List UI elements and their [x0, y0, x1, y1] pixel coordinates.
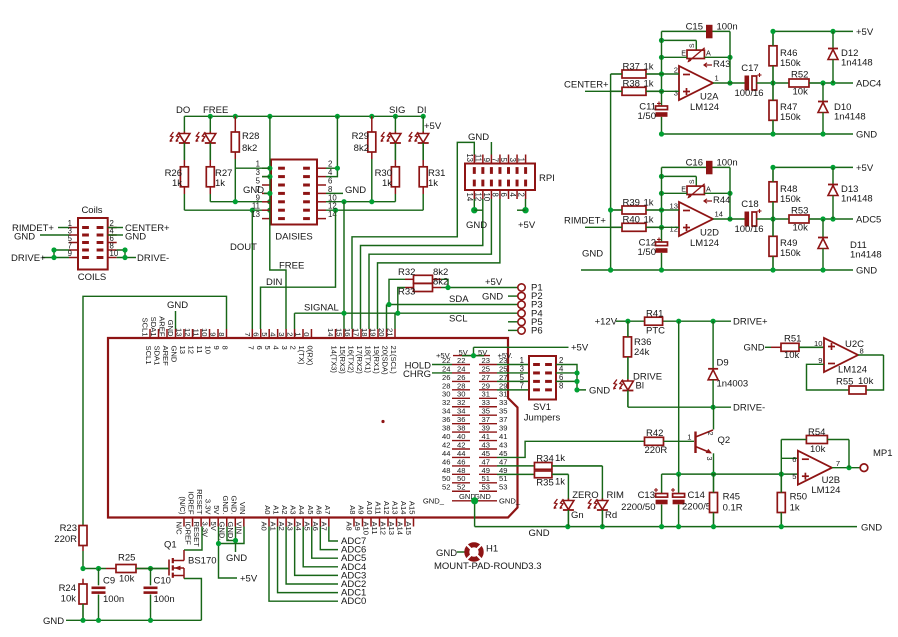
svg-text:14(TX3): 14(TX3)	[330, 346, 339, 374]
node +5V label at P1	[485, 277, 503, 288]
svg-text:A4: A4	[297, 505, 306, 514]
wire right vertical to output	[727, 167, 732, 221]
capacitor C14	[671, 474, 716, 526]
wire CHRG to pin24	[432, 372, 452, 374]
resistor R55	[836, 376, 874, 394]
wire DRIVE- bracket	[117, 247, 136, 260]
svg-text:A15: A15	[404, 522, 413, 536]
junction dots rail A left	[233, 199, 273, 204]
svg-text:7: 7	[243, 332, 252, 336]
wire trimmer S feed	[659, 38, 696, 50]
wire output to cap	[713, 82, 745, 84]
connector RPI	[465, 153, 535, 202]
wire ADC out	[820, 80, 853, 85]
svg-text:16(TX2): 16(TX2)	[347, 346, 356, 374]
svg-text:C10: C10	[154, 576, 171, 587]
wire FREE net (multi-dot vertical down to MCU pin3)	[270, 210, 286, 329]
wire pin49 to R35	[497, 473, 535, 475]
wire VIN pin join	[216, 527, 244, 547]
node ADC4 label	[856, 79, 881, 90]
node +12V label	[595, 317, 628, 328]
svg-text:9: 9	[209, 332, 218, 336]
svg-text:1: 1	[715, 74, 719, 83]
node GND label above MCU	[167, 300, 188, 311]
svg-text:LM124: LM124	[811, 485, 840, 496]
svg-text:2: 2	[285, 332, 294, 336]
capacitor C10	[144, 569, 175, 621]
svg-text:SIG: SIG	[389, 105, 405, 116]
svg-text:11: 11	[195, 346, 204, 354]
resistor R30	[375, 160, 400, 194]
svg-text:24k: 24k	[634, 347, 650, 358]
node FREE label mid	[279, 261, 304, 272]
svg-text:C14: C14	[688, 490, 705, 501]
wires ADC0-ADC7 from A0-A7	[269, 527, 366, 608]
svg-text:A8: A8	[345, 522, 354, 531]
svg-text:10k: 10k	[793, 223, 809, 234]
wire DOUT vertical (rail B to MCU pin7)	[251, 210, 253, 329]
svg-text:IOREF: IOREF	[187, 491, 196, 515]
resistor R33	[398, 277, 448, 298]
wire Q2 emitter to sense node	[711, 453, 716, 476]
power GND label bottom-left	[43, 616, 64, 627]
LED ZERO	[554, 490, 599, 526]
capacitor C9	[92, 569, 125, 621]
svg-text:A1: A1	[272, 505, 281, 514]
svg-text:150k: 150k	[780, 112, 801, 123]
wire left feedback vertical	[659, 31, 664, 94]
wire DIN net (rail B down, left, down to MCU pin6)	[261, 210, 336, 329]
svg-text:GND: GND	[466, 220, 487, 231]
svg-text:10k: 10k	[793, 87, 809, 98]
svg-text:5: 5	[792, 472, 796, 481]
svg-text:A12: A12	[379, 522, 388, 536]
svg-text:U2D: U2D	[700, 228, 719, 239]
wire RPI pin10 route to MCU pin18	[369, 199, 491, 329]
svg-text:S: S	[689, 179, 696, 184]
svg-text:R35: R35	[536, 478, 553, 489]
svg-text:GND: GND	[167, 300, 188, 311]
svg-text:R45: R45	[723, 492, 740, 503]
svg-text:R50: R50	[790, 492, 807, 503]
wire U2B output	[832, 440, 860, 471]
svg-text:A3: A3	[289, 505, 298, 514]
svg-text:DAISIES: DAISIES	[275, 232, 313, 243]
label SV1	[533, 402, 551, 413]
wire R33 right to +5V node	[441, 287, 448, 289]
svg-text:C18: C18	[741, 199, 758, 210]
label MOUNT-PAD-ROUND3.3	[434, 561, 542, 572]
svg-text:+5V: +5V	[856, 163, 874, 174]
svg-text:E: E	[681, 185, 686, 194]
LED DRIVE	[613, 372, 662, 408]
svg-text:10k: 10k	[784, 350, 800, 361]
svg-text:8: 8	[491, 193, 500, 197]
capacitor C18	[734, 199, 763, 235]
svg-text:SCL1: SCL1	[141, 318, 150, 337]
svg-text:5: 5	[263, 346, 272, 350]
IC U1 bottom pins with numbers	[175, 489, 417, 547]
svg-text:GND: GND	[744, 343, 765, 354]
wire main GND rail	[475, 524, 857, 529]
svg-text:Gn: Gn	[571, 510, 584, 521]
svg-text:R52: R52	[791, 70, 808, 81]
svg-text:GND: GND	[582, 249, 603, 260]
svg-text:1n4148: 1n4148	[834, 112, 866, 123]
svg-text:13: 13	[175, 328, 184, 336]
svg-text:9: 9	[212, 346, 221, 350]
wire rail B right (DAISIES pin12 net)	[326, 209, 423, 211]
transistor Q2	[687, 430, 730, 461]
node +5V label right of MCU	[571, 343, 589, 354]
node CHRG label	[403, 369, 431, 380]
svg-text:LM124: LM124	[690, 238, 719, 249]
svg-text:+5V: +5V	[518, 220, 536, 231]
wire bottom-left GND rail	[66, 618, 201, 623]
node DRIVE- label	[137, 253, 169, 264]
wire MCU pin20 stub to SDA	[386, 305, 388, 330]
svg-text:R42: R42	[646, 428, 663, 439]
svg-text:VIN: VIN	[238, 502, 247, 515]
wire rail A left (DAISIES pin9 net)	[210, 201, 262, 203]
wire ADC out	[820, 216, 853, 221]
svg-text:DRIVE+: DRIVE+	[733, 317, 768, 328]
svg-text:+5V: +5V	[571, 343, 589, 354]
svg-text:DO: DO	[176, 105, 190, 116]
mount pad H1	[436, 544, 498, 560]
svg-text:2: 2	[289, 346, 298, 350]
svg-text:10k: 10k	[119, 574, 135, 585]
svg-text:0: 0	[302, 332, 311, 336]
junction dots rail B left	[250, 208, 273, 213]
wire RPI pin12 route to MCU pin17	[361, 199, 483, 329]
wire DRIVE- line	[628, 405, 731, 410]
wire node row left	[80, 566, 106, 571]
resistor R24	[59, 579, 87, 621]
IC U1 top pins with numbers	[141, 316, 398, 375]
svg-text:100n: 100n	[717, 158, 738, 169]
LED SIG	[381, 116, 401, 160]
svg-text:R43: R43	[713, 59, 730, 70]
node CENTER+ label	[564, 80, 611, 92]
svg-text:A9: A9	[353, 522, 362, 531]
LED FREE	[195, 116, 215, 160]
svg-text:C9: C9	[103, 576, 115, 587]
node CENTER+ label	[108, 223, 170, 234]
svg-text:1k: 1k	[382, 178, 392, 189]
svg-text:8: 8	[559, 381, 563, 390]
resistor R54	[781, 427, 849, 455]
wire GND rail U2A	[659, 131, 853, 136]
svg-text:GND.: GND.	[221, 496, 230, 515]
svg-text:100n: 100n	[103, 594, 124, 605]
wire MCU 5V pin to +5V label	[219, 527, 238, 579]
wire node row right dot	[136, 566, 169, 571]
svg-text:19: 19	[369, 328, 378, 336]
resistor R51	[771, 334, 824, 362]
op-amp U2A	[674, 66, 719, 114]
svg-text:E: E	[681, 49, 686, 58]
wire sense line	[662, 472, 798, 477]
IC U1 right header pins 22-53	[423, 348, 521, 505]
svg-text:Rd: Rd	[605, 510, 617, 521]
svg-text:8k2: 8k2	[354, 143, 369, 154]
node +5V label below Q1	[240, 574, 258, 585]
svg-text:8k2: 8k2	[242, 143, 257, 154]
svg-text:150k: 150k	[780, 58, 801, 69]
resistor R49	[769, 219, 801, 270]
capacitor C17	[734, 63, 763, 99]
resistor R47	[769, 83, 801, 134]
svg-text:A9: A9	[357, 505, 366, 514]
svg-text:CHRG: CHRG	[403, 369, 431, 380]
power GND label right U2D	[856, 266, 877, 277]
diode D10	[818, 83, 866, 134]
svg-text:53: 53	[499, 483, 507, 492]
node HOLD label	[405, 361, 432, 372]
svg-text:R54: R54	[808, 427, 825, 438]
diode D12	[828, 31, 873, 83]
svg-text:A13: A13	[387, 522, 396, 536]
svg-text:Bl: Bl	[636, 381, 644, 392]
wire SIGNAL long vertical (rail A to MCU pin15)	[343, 202, 345, 338]
svg-text:ADC5: ADC5	[856, 215, 881, 226]
svg-text:(N/C): (N/C)	[178, 496, 187, 515]
svg-text:GND: GND	[14, 232, 35, 243]
label Jumpers	[524, 413, 561, 424]
svg-text:10k: 10k	[810, 444, 826, 455]
wire rail A right (DAISIES pin10 net)	[326, 201, 395, 203]
diode D11	[818, 219, 882, 270]
svg-text:6: 6	[251, 332, 260, 336]
wire R23 rail to MCU pin8	[83, 296, 227, 525]
wire +5V rail right	[770, 165, 853, 170]
wire R31 bottom to rail B right	[422, 194, 424, 210]
wire R35 to ZERO LED	[567, 474, 569, 499]
svg-text:BS170: BS170	[188, 556, 217, 567]
node GND label left of DAISIES pin7	[243, 185, 270, 196]
wire RPI pin2 to +5V	[517, 199, 529, 213]
svg-text:CENTER+: CENTER+	[564, 80, 609, 91]
svg-text:DIN: DIN	[266, 277, 283, 288]
svg-text:8: 8	[217, 332, 226, 336]
junction dot rail B right	[333, 208, 338, 213]
resistor R31	[419, 160, 445, 194]
connector SV1	[520, 356, 564, 400]
svg-text:3: 3	[280, 346, 289, 350]
svg-text:R39: R39	[623, 198, 640, 209]
svg-text:1(TX): 1(TX)	[297, 346, 306, 365]
svg-text:+5V: +5V	[424, 121, 442, 132]
node +5V label at DI	[424, 121, 442, 132]
wire +5V vertical right of DAISIES to pins 2,4	[326, 116, 340, 176]
svg-text:+5V: +5V	[856, 27, 874, 38]
svg-text:150k: 150k	[780, 194, 801, 205]
wire SDA line	[386, 302, 517, 307]
label COILS	[78, 272, 107, 283]
svg-text:RIMDET+: RIMDET+	[564, 216, 606, 227]
wire left vertical CENTER/RIMDET gain net	[608, 74, 613, 273]
svg-text:R32: R32	[398, 267, 415, 278]
node GND label below MCU	[226, 553, 247, 564]
svg-text:AREF: AREF	[158, 316, 167, 337]
transistor Q1	[164, 540, 217, 579]
wire pin23 to SV1 pin1	[497, 364, 529, 366]
resistor R48	[769, 167, 801, 219]
wire R29 bottom to rail A	[371, 159, 373, 202]
wire RPI pin13 route to MCU pin16	[352, 142, 474, 329]
svg-text:13: 13	[670, 202, 678, 211]
node DOUT label	[230, 242, 257, 253]
svg-text:A11: A11	[374, 502, 383, 515]
resistor R40	[611, 215, 662, 232]
wire cap to ADC node	[757, 80, 789, 85]
wire feedback top rail U2D	[662, 166, 731, 168]
svg-text:18(TX1): 18(TX1)	[364, 346, 373, 374]
wire Q1 source to GND rail	[184, 579, 201, 621]
LED RIM	[588, 490, 625, 526]
svg-text:A14: A14	[399, 501, 408, 515]
svg-text:20(SDA): 20(SDA)	[381, 346, 390, 376]
wire R28 bottom to rail A and DAISIES pin 1	[235, 159, 262, 202]
trimmer R43	[681, 43, 730, 70]
svg-text:100/16: 100/16	[734, 88, 763, 99]
svg-text:2: 2	[706, 432, 715, 436]
wire pin47 to R34	[497, 465, 535, 467]
svg-text:1k: 1k	[644, 198, 654, 209]
node SCL label	[449, 314, 467, 325]
wire +5V rail of LED/DAISIES section	[184, 115, 423, 117]
svg-text:12: 12	[187, 346, 196, 354]
pad MP1	[860, 448, 892, 472]
svg-text:1k: 1k	[428, 178, 438, 189]
wire HOLD to pin22	[432, 364, 452, 366]
svg-text:ADC4: ADC4	[856, 79, 881, 90]
wire +5V vertical left of DAISIES to pins 1,3	[262, 116, 273, 210]
capacitor C12	[638, 227, 668, 270]
svg-text:53: 53	[482, 483, 490, 492]
svg-text:7: 7	[520, 381, 524, 390]
wire DRIVE+ bracket	[42, 247, 69, 260]
wire trimmer A to right vertical	[704, 55, 732, 60]
op-amp U2C	[814, 338, 867, 376]
resistor R23	[54, 523, 87, 551]
resistor R26	[165, 160, 189, 194]
svg-text:DRIVE-: DRIVE-	[137, 253, 169, 264]
svg-text:R24: R24	[59, 583, 76, 594]
svg-text:220R: 220R	[645, 445, 668, 456]
svg-text:GND_: GND_	[499, 496, 521, 505]
svg-text:13: 13	[465, 153, 474, 162]
node GND label above RPI	[468, 132, 489, 143]
wire R34 to RIM LED	[601, 466, 603, 500]
svg-text:1k: 1k	[172, 178, 182, 189]
wire DRIVE+ to C13/C14 line	[678, 321, 680, 474]
svg-text:A: A	[706, 185, 711, 194]
svg-text:P6: P6	[531, 326, 543, 337]
svg-text:IOREF: IOREF	[183, 522, 192, 546]
svg-text:FREE: FREE	[203, 105, 228, 116]
svg-text:GND.: GND.	[229, 496, 238, 515]
node ADC5 label	[856, 215, 881, 226]
wire DRIVE+ line	[625, 319, 731, 324]
svg-text:+5V: +5V	[240, 574, 258, 585]
svg-text:R38: R38	[623, 79, 640, 90]
node FREE label	[203, 105, 228, 116]
svg-text:100n: 100n	[154, 594, 175, 605]
svg-text:5: 5	[499, 158, 508, 163]
node RIMDET+ label	[564, 216, 611, 228]
svg-text:ADC7: ADC7	[341, 536, 366, 547]
wire R30 bottom to rail A right	[394, 194, 396, 202]
svg-text:A8: A8	[348, 505, 357, 514]
op-amp U2D	[670, 202, 723, 250]
svg-text:8: 8	[221, 346, 230, 350]
wire MCU pin21 stub to SCL	[394, 313, 396, 329]
svg-text:1k: 1k	[215, 178, 225, 189]
label Coils	[81, 205, 102, 216]
svg-text:R37: R37	[623, 62, 640, 73]
capacitor C15	[686, 22, 738, 39]
node DI label	[417, 105, 427, 116]
svg-text:GND: GND	[861, 523, 882, 534]
wire pin45 to R42 line	[497, 441, 645, 457]
svg-text:GND: GND	[170, 346, 179, 363]
svg-text:R55: R55	[836, 377, 853, 388]
wire output to cap	[713, 218, 745, 220]
svg-text:1/50: 1/50	[638, 111, 657, 122]
svg-text:AREF: AREF	[161, 346, 170, 367]
wire RPI pin14 to GND	[471, 199, 483, 213]
resistor R35	[534, 471, 568, 489]
wire GND rail U2D	[581, 267, 853, 272]
node GND label right of SV1	[589, 386, 610, 397]
label DAISIES	[275, 232, 313, 243]
svg-text:A12: A12	[382, 501, 391, 515]
svg-text:R41: R41	[646, 309, 663, 320]
svg-text:Q2: Q2	[718, 435, 731, 446]
junction dots rail A right	[341, 199, 374, 204]
resistor R32	[398, 267, 448, 283]
svg-text:LM124: LM124	[690, 102, 719, 113]
svg-text:Q1: Q1	[164, 540, 177, 551]
svg-text:6: 6	[499, 193, 508, 197]
wire +5V header feed	[471, 347, 569, 358]
wire MCU GND pins join	[227, 527, 238, 553]
wire trimmer E to left vertical	[659, 191, 687, 196]
wire trimmer E to left vertical	[659, 55, 687, 60]
svg-text:1k: 1k	[644, 215, 654, 226]
svg-text:RESET: RESET	[195, 489, 204, 515]
wire MCU GND row to GND rail	[471, 497, 478, 526]
connector pads P1-P6	[518, 283, 543, 337]
svg-text:A0: A0	[263, 505, 272, 514]
svg-text:+5V: +5V	[485, 277, 503, 288]
wire non-inverting input	[662, 90, 680, 92]
connector COILS	[68, 218, 119, 270]
label RPI	[539, 173, 555, 184]
wire pin27 to SV1 pin5	[497, 380, 529, 382]
wire +5V to P1	[445, 285, 517, 290]
svg-text:1: 1	[687, 433, 691, 442]
svg-text:14: 14	[715, 210, 723, 219]
resistor R25	[106, 553, 146, 585]
svg-text:COILS: COILS	[78, 272, 107, 283]
svg-text:GND: GND	[856, 266, 877, 277]
resistor R46	[769, 31, 801, 83]
svg-text:7: 7	[491, 158, 500, 162]
svg-text:C13: C13	[638, 490, 655, 501]
